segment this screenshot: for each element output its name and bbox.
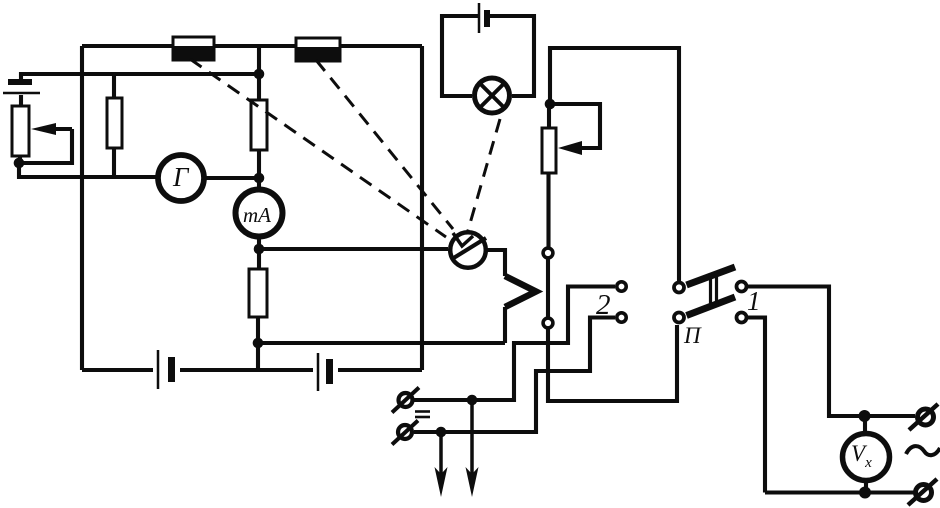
svg-text:П: П: [683, 323, 702, 348]
svg-text:mA: mA: [243, 203, 271, 227]
svg-text:Г: Г: [172, 162, 190, 192]
svg-text:2: 2: [596, 289, 611, 321]
svg-text:1: 1: [747, 286, 761, 316]
